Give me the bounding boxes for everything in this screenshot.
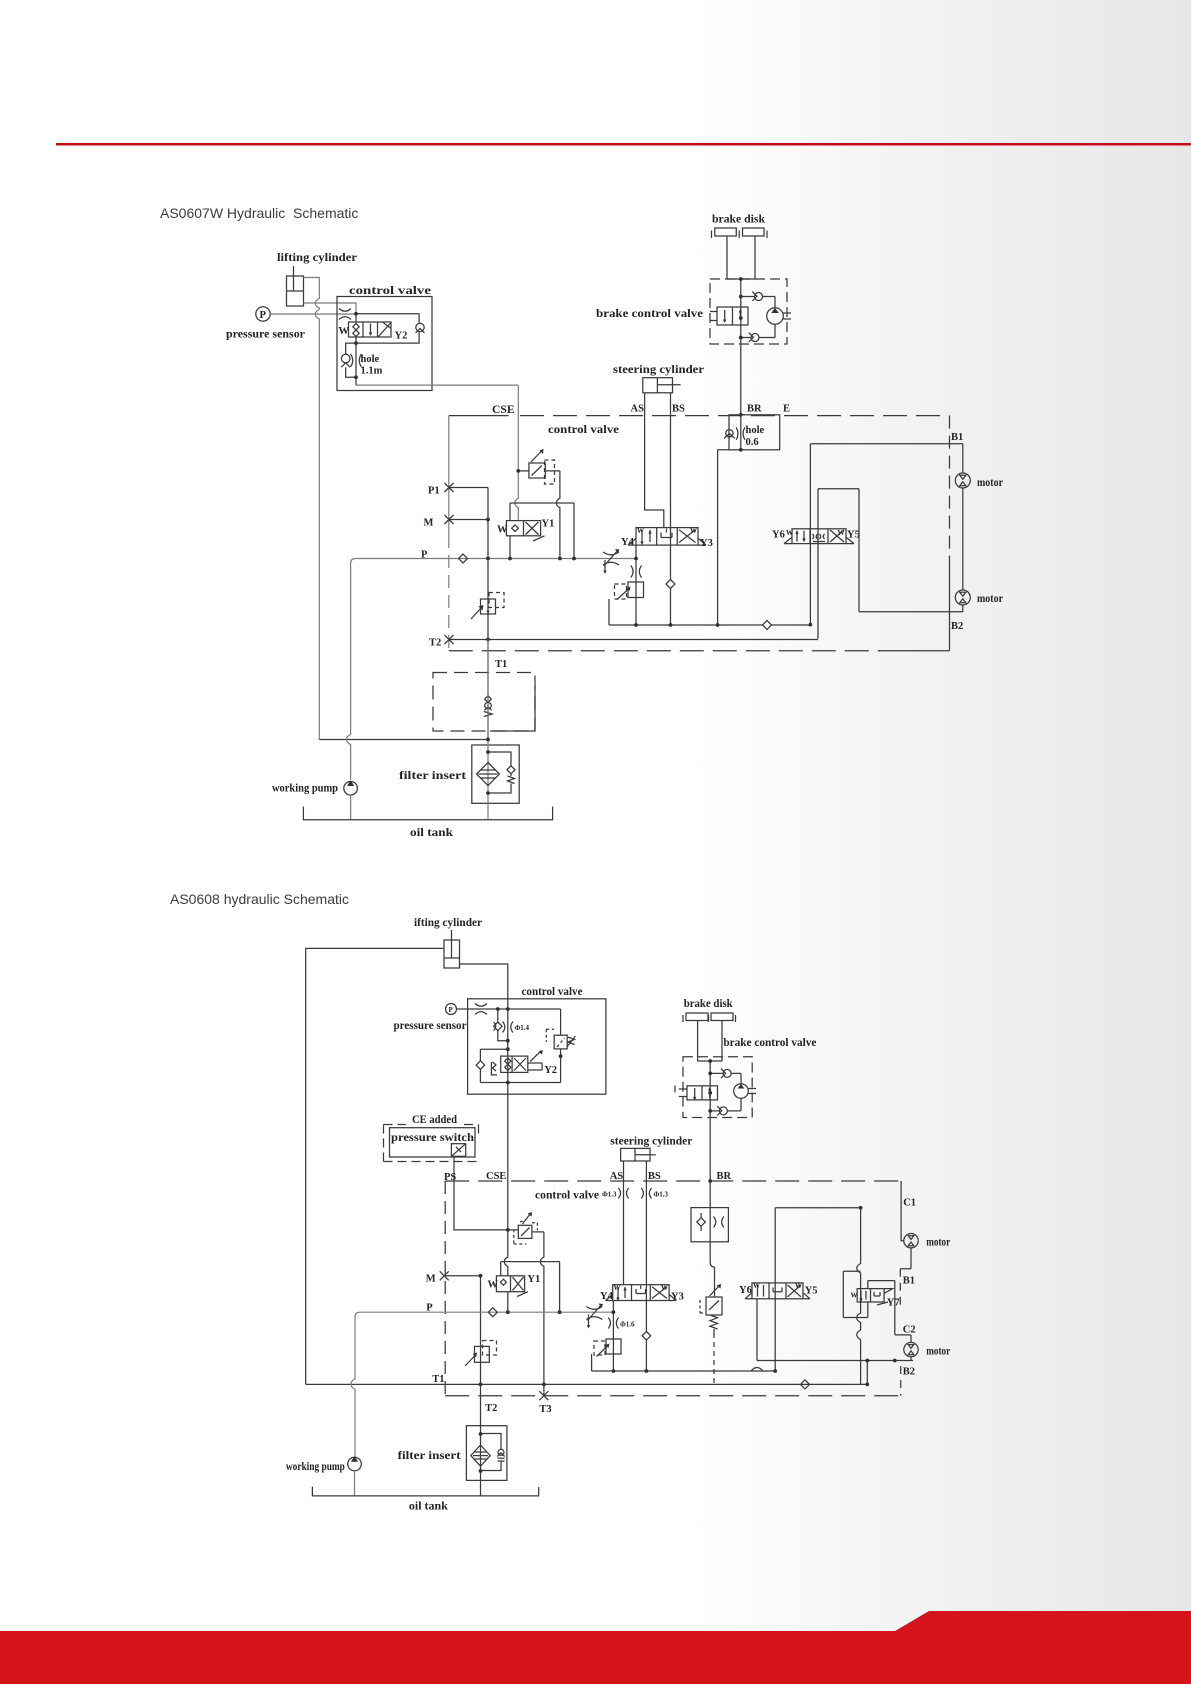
svg-text:oil tank: oil tank: [410, 826, 454, 839]
wire cylinder bottom to control valve: [304, 303, 357, 314]
relief valve Y4 drain: [615, 582, 644, 600]
CSE vertical: [515, 385, 518, 520]
svg-text:P1: P1: [428, 486, 440, 497]
brake disk: [712, 228, 768, 238]
wire BR box drain: [710, 1242, 714, 1297]
dashed box left edge: [448, 416, 450, 535]
wire compensator to P: [556, 471, 559, 559]
dashed box 2 top: [445, 1180, 901, 1182]
pilot arrow down 2: [588, 1315, 590, 1326]
wire C2: [895, 1335, 911, 1343]
svg-text:BR: BR: [747, 404, 762, 415]
valve Y6 Y5: [784, 529, 854, 544]
lifting cylinder: [287, 266, 304, 306]
svg-text:AS0608 hydraulic Schematic: AS0608 hydraulic Schematic: [170, 891, 349, 907]
check diamond P: [459, 554, 468, 563]
lifting cylinder 2: [444, 930, 460, 968]
valve Y1-2: [496, 1276, 528, 1297]
svg-text:W: W: [786, 529, 793, 537]
svg-text:W: W: [753, 1282, 760, 1290]
wire relief 2: [508, 1009, 561, 1083]
svg-text:W: W: [661, 1284, 668, 1292]
brake check bottom 2: [717, 1106, 727, 1115]
svg-text:brake control valve: brake control valve: [596, 307, 703, 320]
svg-text:oil tank: oil tank: [409, 1500, 449, 1513]
brake pump 2: [734, 1084, 756, 1099]
svg-text:W: W: [795, 1282, 802, 1290]
dashed box 2 bottom: [445, 1395, 901, 1397]
wire cylinder top to long drop line: [304, 278, 320, 740]
oil tank 2: [312, 1487, 538, 1496]
svg-text:W: W: [690, 527, 697, 535]
compensator valve: [529, 451, 555, 485]
wire AS: [645, 393, 664, 528]
wire B1 top: [810, 444, 962, 473]
check valve hole box: [724, 430, 735, 439]
svg-text:pressure sensor: pressure sensor: [394, 1019, 467, 1032]
svg-text:Y6: Y6: [772, 530, 785, 541]
brake valve 2: [675, 1086, 718, 1100]
flow control: [603, 550, 619, 566]
svg-text:Φ1.3: Φ1.3: [654, 1190, 669, 1198]
motor 1-2: [904, 1234, 918, 1248]
wire compensator: [518, 470, 560, 472]
svg-text:motor: motor: [926, 1236, 950, 1249]
valve Y6 Y5 2: [745, 1283, 810, 1299]
node dots box2: [496, 1007, 563, 1084]
relief valve left: [471, 593, 504, 620]
svg-text:W: W: [637, 527, 644, 535]
brake control valve dashed box 2: [683, 1057, 752, 1118]
working pump: [344, 782, 358, 796]
svg-text:Y3: Y3: [671, 1292, 684, 1303]
svg-text:Φ1.6: Φ1.6: [620, 1321, 635, 1329]
throttle 2: [475, 1004, 487, 1015]
wire brake check top: [741, 297, 775, 308]
svg-text:E: E: [783, 404, 790, 415]
node dots filter: [486, 738, 490, 795]
svg-text:motor: motor: [926, 1345, 950, 1358]
svg-text:B2: B2: [951, 621, 963, 632]
check valve left: [341, 354, 350, 367]
steering cylinder: [643, 378, 681, 393]
check diamond bottom: [763, 621, 772, 630]
check valve right: [416, 323, 425, 333]
dashed box 2 left: [444, 1181, 446, 1396]
valve Y7: [857, 1289, 892, 1305]
svg-text:Y2: Y2: [544, 1065, 557, 1076]
wire P 2: [355, 1312, 613, 1317]
filter bypass 2: [481, 1434, 505, 1471]
svg-text:T2: T2: [485, 1403, 497, 1414]
valve Y2: [349, 322, 392, 337]
svg-text:T1: T1: [495, 659, 507, 670]
node dots brake 2: [708, 1059, 712, 1183]
filter bypass check: [488, 752, 515, 793]
svg-text:W: W: [488, 1280, 499, 1291]
svg-text:Y3: Y3: [700, 538, 713, 549]
wire Y4 drain 2: [612, 1301, 614, 1372]
svg-text:B1: B1: [951, 432, 963, 443]
relief valve Y4 drain 2: [594, 1339, 621, 1357]
wire T1 2: [306, 1383, 868, 1385]
pilot line 2 with hops: [501, 1262, 560, 1313]
valve Y2-2: [491, 1051, 542, 1075]
dashed box right edge: [949, 416, 951, 567]
wire AS 2: [623, 1161, 625, 1285]
svg-text:W: W: [339, 326, 350, 337]
wire M: [449, 519, 488, 521]
brake check valve top: [752, 292, 762, 301]
wire hole box drain: [718, 450, 729, 625]
wire pump to tank: [350, 795, 352, 820]
svg-text:lifting cylinder: lifting cylinder: [277, 251, 357, 264]
wire return line: [319, 739, 488, 741]
valve Y4 Y3: [628, 528, 706, 546]
wire BS: [670, 393, 672, 625]
orifice Y4 drain: [631, 566, 642, 578]
wire B2 line: [757, 1360, 913, 1362]
wire Y6 valve port B2: [756, 1299, 758, 1361]
wire T2: [449, 639, 818, 641]
orifice BR box: [714, 1217, 724, 1228]
bottom collector line: [609, 599, 810, 625]
pressure sensor P1: [256, 307, 270, 321]
orifice 1.4: [503, 1022, 513, 1033]
svg-text:Y1: Y1: [527, 1274, 540, 1285]
filter insert box 2: [466, 1426, 507, 1481]
wire Y4 bottom to relief: [635, 545, 637, 625]
check valve T1: [484, 696, 492, 717]
svg-text:hole: hole: [746, 425, 765, 436]
wire check loop: [346, 343, 356, 377]
wire brake disks: [727, 236, 755, 279]
wire Y1 bottom port: [509, 536, 511, 559]
wire T2 filter 2: [480, 1384, 482, 1496]
wire Y7 loop: [868, 1281, 895, 1335]
svg-text:W: W: [851, 1292, 858, 1300]
pressure switch dashed box: [384, 1125, 479, 1162]
svg-text:B1: B1: [903, 1276, 915, 1287]
working pump 2: [348, 1457, 362, 1471]
T3 port x: [539, 1391, 548, 1400]
wire brake check bottom: [741, 324, 775, 337]
wire cylinder 2 right: [460, 964, 508, 998]
svg-text:motor: motor: [977, 476, 1003, 489]
wire right riser 2: [857, 1208, 861, 1385]
orifice hole 0.6: [736, 427, 745, 439]
check diamond BS 2: [642, 1332, 651, 1341]
svg-text:P: P: [449, 1006, 454, 1014]
BR check box 2: [691, 1208, 728, 1242]
svg-text:BR: BR: [717, 1171, 732, 1182]
svg-text:steering cylinder: steering cylinder: [610, 1134, 692, 1147]
wire BR vertical: [740, 279, 742, 450]
svg-text:BS: BS: [648, 1171, 661, 1182]
wire P1-M-P-T2 vertical: [487, 488, 489, 740]
svg-text:T1: T1: [432, 1374, 444, 1385]
orifice BS: [641, 1188, 651, 1198]
motor 2: [955, 590, 970, 605]
oil tank: [303, 807, 552, 820]
inner dashed box T1: [433, 673, 535, 732]
dashed drain compensator 2: [713, 1333, 715, 1384]
wire motor2 bottom 2: [910, 1357, 912, 1361]
relief valve M line 2: [465, 1341, 497, 1367]
svg-text:P: P: [260, 310, 267, 321]
svg-text:brake disk: brake disk: [712, 213, 766, 226]
wire B2 to T1: [866, 1361, 868, 1385]
svg-text:working pump: working pump: [272, 782, 338, 795]
svg-text:Y5: Y5: [805, 1286, 818, 1297]
wire pump riser 2: [351, 1317, 355, 1496]
wire P1: [449, 487, 488, 489]
svg-text:C1: C1: [903, 1198, 916, 1209]
svg-text:AS: AS: [610, 1171, 624, 1182]
node dots right 2: [479, 1206, 897, 1386]
check diamond T1 2: [801, 1380, 810, 1389]
svg-text:Φ1.4: Φ1.4: [515, 1024, 530, 1032]
svg-text:CSE: CSE: [492, 403, 515, 416]
wire box1 to CSE: [356, 384, 518, 386]
control valve box 2: [468, 999, 606, 1094]
svg-text:control valve: control valve: [349, 284, 431, 297]
wire cylinder 2 left: [306, 948, 444, 1384]
bottom loop 2: [480, 1082, 560, 1084]
compensator right 2: [700, 1286, 722, 1334]
svg-text:M: M: [424, 518, 434, 529]
orifice hole 1.1m: [351, 354, 362, 367]
hole 0.6 box: [729, 415, 780, 450]
svg-text:AS0607W Hydraulic Schematic: AS0607W Hydraulic Schematic: [160, 205, 358, 221]
svg-text:1.1m: 1.1m: [361, 366, 383, 377]
valve Y4 Y3 2: [606, 1285, 677, 1301]
wire BS 2: [645, 1161, 647, 1371]
svg-text:ifting cylinder: ifting cylinder: [414, 916, 482, 929]
svg-text:filter insert: filter insert: [399, 769, 466, 782]
svg-text:brake disk: brake disk: [684, 997, 734, 1010]
svg-text:Y4: Y4: [621, 537, 635, 548]
relief valve box2: [546, 1029, 575, 1049]
svg-text:Y7: Y7: [887, 1298, 900, 1309]
wire sensor 2: [457, 1008, 508, 1010]
filter insert box: [472, 745, 519, 803]
B1 dashes: [899, 1269, 901, 1310]
check diamond P 2: [488, 1308, 497, 1317]
node dots brake: [739, 277, 743, 452]
svg-text:Y2: Y2: [395, 331, 408, 342]
filter element: [477, 763, 500, 786]
svg-text:filter insert: filter insert: [398, 1449, 461, 1462]
orifice 1.6: [608, 1318, 618, 1329]
node dots filter 2: [479, 1432, 483, 1473]
red footer band: [0, 1611, 1191, 1684]
svg-text:Y5: Y5: [847, 530, 860, 541]
main vertical control valve 2: [507, 998, 509, 1182]
svg-text:BS: BS: [672, 404, 685, 415]
wire T1 through filter: [487, 640, 489, 820]
check diamond left 2: [476, 1049, 508, 1082]
pressure switch symbol: [451, 1144, 465, 1157]
svg-text:T2: T2: [429, 638, 441, 649]
wire Y2 loop: [356, 314, 419, 385]
wire M 2: [444, 1276, 480, 1385]
svg-text:CE added: CE added: [412, 1113, 457, 1126]
svg-text:Y4: Y4: [600, 1291, 614, 1302]
node dots control valve 1: [354, 312, 358, 379]
wire T2 riser: [818, 489, 963, 639]
hop T1: [751, 1368, 763, 1372]
compensator 2: [514, 1214, 538, 1245]
motor 2-2: [904, 1342, 918, 1356]
svg-text:control valve: control valve: [535, 1189, 599, 1202]
svg-text:B2: B2: [903, 1367, 915, 1378]
svg-text:W: W: [838, 529, 845, 537]
orifice AS: [618, 1188, 628, 1198]
brake disk 2: [683, 1013, 736, 1022]
svg-text:Y6: Y6: [739, 1285, 752, 1296]
svg-text:brake control valve: brake control valve: [723, 1036, 816, 1049]
svg-text:pressure sensor: pressure sensor: [226, 328, 305, 341]
wire P: [351, 559, 636, 564]
wire brake disks 2: [698, 1021, 722, 1062]
valve Y1: [506, 521, 544, 541]
node dots main: [486, 469, 812, 641]
dashed box bottom: [449, 650, 890, 652]
pilot arrow down: [604, 560, 606, 571]
throttle: [339, 309, 351, 320]
check diamond BR box: [697, 1218, 706, 1227]
brake check valve bottom: [749, 333, 759, 342]
bottom collector 2: [592, 1354, 776, 1371]
red header rule: [56, 143, 1191, 146]
svg-text:AS: AS: [631, 404, 645, 415]
svg-text:motor: motor: [977, 592, 1003, 605]
dashed box top: [449, 415, 509, 417]
svg-text:W: W: [497, 525, 508, 536]
pressure sensor 2: [446, 1004, 457, 1015]
filter element 2: [471, 1445, 490, 1466]
wire C1: [901, 1181, 904, 1241]
wire motor1 bottom 2: [900, 1248, 911, 1269]
svg-text:M: M: [426, 1274, 436, 1285]
wire Y1-2 ports: [507, 1292, 509, 1313]
wire B1 riser: [809, 444, 811, 625]
svg-text:C2: C2: [903, 1325, 916, 1336]
svg-text:hole: hole: [361, 354, 380, 365]
brake valve: [710, 307, 748, 325]
svg-text:control valve: control valve: [548, 423, 619, 436]
svg-text:Φ1.3: Φ1.3: [602, 1190, 617, 1198]
wire PS: [454, 1156, 518, 1230]
flow control 2: [586, 1305, 602, 1321]
svg-text:working pump: working pump: [286, 1460, 345, 1473]
wire BR vertical 2: [709, 1061, 711, 1242]
svg-text:pressure switch: pressure switch: [391, 1131, 475, 1144]
pressure switch box: [390, 1128, 476, 1157]
control valve box 1: [337, 297, 432, 391]
svg-text:W: W: [614, 1284, 621, 1292]
wire compensator 2 out: [532, 1232, 544, 1396]
brake control valve dashed box: [710, 279, 787, 344]
brake pump: [767, 308, 791, 325]
brake check top 2: [721, 1069, 731, 1078]
wire sensor to valve: [270, 313, 356, 315]
wire pump riser: [347, 564, 351, 780]
wire motors: [962, 488, 964, 612]
pilot line with hops: [510, 503, 574, 559]
svg-text:steering cylinder: steering cylinder: [613, 363, 704, 376]
check diamond BS: [666, 580, 675, 589]
left loop Y7: [843, 1271, 868, 1317]
svg-text:0.6: 0.6: [746, 437, 759, 448]
wire brake check top 2: [710, 1073, 741, 1083]
svg-text:control valve: control valve: [522, 985, 583, 998]
steering cylinder 2: [621, 1148, 656, 1161]
svg-text:CSE: CSE: [486, 1171, 506, 1182]
svg-text:T3: T3: [539, 1404, 551, 1415]
svg-text:Y1: Y1: [542, 519, 555, 530]
wire C1 top: [775, 1208, 860, 1371]
check branch 2: [494, 1009, 508, 1041]
motor 1: [955, 473, 970, 488]
wire brake check bottom 2: [710, 1098, 741, 1111]
B2 dashes: [900, 1366, 902, 1396]
